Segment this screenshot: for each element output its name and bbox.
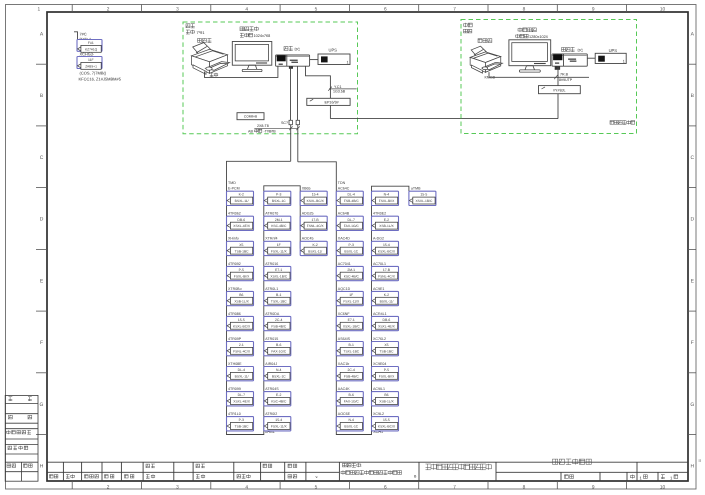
svg-text:1G3.5B: 1G3.5B	[333, 89, 345, 94]
svg-text:ADG25: ADG25	[302, 211, 314, 216]
svg-text:(COS, 7)7MB(): (COS, 7)7MB()	[80, 71, 107, 76]
svg-text:D: D	[40, 217, 44, 223]
left room green dashed boundary	[183, 22, 358, 134]
unit box XHinfo	[227, 241, 254, 255]
svg-text:E: E	[40, 278, 44, 284]
unit box ATR0I2	[264, 417, 291, 431]
svg-text:AB: AB	[248, 129, 253, 134]
svg-text:FSXL-11/X: FSXL-11/X	[343, 300, 359, 304]
svg-text:K-2: K-2	[312, 243, 317, 247]
svg-text:X5: X5	[384, 344, 388, 348]
svg-text:7: 7	[453, 484, 456, 490]
svg-text:Y.C1: Y.C1	[334, 85, 342, 90]
svg-text:4TR1L0: 4TR1L0	[228, 412, 241, 417]
title block small labels row	[50, 475, 58, 478]
unit box XTRnf4	[264, 241, 291, 255]
right host label	[562, 47, 575, 51]
svg-text:F#1: F#1	[88, 42, 94, 46]
svg-text:AC64B: AC64B	[338, 211, 349, 216]
svg-text:4TR099: 4TR099	[228, 387, 241, 392]
right printer label	[478, 39, 492, 43]
right room corner label	[610, 120, 635, 124]
unit box AC9IL1	[372, 392, 399, 406]
title block project-name cell	[343, 463, 361, 467]
bottom zone tick marks	[72, 481, 626, 489]
wire hub left down to LAN link	[329, 105, 331, 118]
svg-text:4: 4	[245, 6, 248, 12]
svg-text:AAC4K: AAC4K	[338, 387, 350, 392]
svg-text:15-5: 15-5	[383, 419, 390, 423]
unit box aTMB	[409, 191, 436, 205]
svg-text:7: 7	[453, 6, 456, 12]
svg-text:N-4: N-4	[276, 369, 282, 373]
svg-text:II: II	[699, 459, 701, 464]
svg-text:8: 8	[523, 484, 526, 490]
svg-text:A: A	[691, 32, 695, 38]
margin table label: miao tu	[9, 397, 13, 401]
svg-text:P-3: P-3	[276, 193, 281, 197]
svg-text:XTH08E: XTH08E	[228, 361, 242, 366]
unit box AC9E1	[372, 291, 399, 305]
svg-text:AC70L1: AC70L1	[373, 261, 386, 266]
svg-text:B-6: B-6	[349, 394, 354, 398]
svg-text:XB65: XB65	[302, 186, 311, 191]
svg-text:FSB-4B/C: FSB-4B/C	[344, 375, 359, 379]
svg-text:K-2: K-2	[239, 193, 244, 197]
svg-text:4TR09P: 4TR09P	[228, 336, 241, 341]
svg-text:XAC4D: XAC4D	[338, 236, 350, 241]
left riser wire A upper	[290, 66, 292, 120]
svg-text:B-1: B-1	[276, 293, 281, 297]
svg-text:TSB-1BC: TSB-1BC	[235, 425, 249, 429]
svg-text:B: B	[40, 93, 44, 99]
svg-text:C: C	[40, 155, 44, 161]
svg-text:XC9E04: XC9E04	[373, 361, 386, 366]
printer right	[470, 46, 502, 73]
unit box TDN/AC64C	[336, 191, 363, 205]
bus serpentine right net	[298, 162, 409, 435]
unit box ATR070	[264, 216, 291, 230]
svg-text:DB-6: DB-6	[383, 318, 391, 322]
svg-text:UPS: UPS	[329, 48, 338, 53]
unit box ADG25	[300, 216, 327, 230]
svg-text:BSXL-1C: BSXL-1C	[344, 425, 358, 429]
svg-text:AS64IS: AS64IS	[338, 336, 350, 341]
svg-text:7R.B: 7R.B	[560, 72, 568, 77]
left riser wire A lower	[290, 125, 292, 162]
serial server box left	[237, 113, 264, 120]
svg-text:XTR0Bo: XTR0Bo	[228, 286, 242, 291]
wire printer to host left	[205, 66, 278, 77]
svg-text:7#C: 7#C	[80, 32, 87, 37]
monitor right	[509, 40, 551, 66]
svg-text:1F: 1F	[349, 293, 353, 297]
svg-text:15-5: 15-5	[420, 193, 427, 197]
svg-text:17-B: 17-B	[312, 218, 319, 222]
svg-text:AC7041: AC7041	[338, 261, 351, 266]
right zone tick marks	[688, 64, 696, 434]
svg-text:XC9L2: XC9L2	[373, 412, 384, 417]
svg-text:5: 5	[315, 6, 318, 12]
wire host bottom-right to hub left	[306, 66, 331, 98]
unit box c2r1	[264, 191, 291, 205]
title block sheet cell: di 1 zhang	[631, 475, 635, 479]
svg-text:15-4: 15-4	[383, 243, 390, 247]
svg-text:AQC1D: AQC1D	[338, 286, 350, 291]
svg-text:FSXL-BI/X: FSXL-BI/X	[379, 375, 395, 379]
svg-text:C: C	[690, 155, 694, 161]
svg-text:15-4: 15-4	[275, 419, 282, 423]
title block sheet cell: gong 1 zhang	[661, 475, 665, 479]
left host label	[284, 46, 293, 50]
svg-text:F: F	[40, 340, 43, 346]
svg-text:KSXL-BC/X: KSXL-BC/X	[233, 325, 251, 329]
unit box TMD/E-PCM	[227, 191, 254, 205]
svg-text:XSXL-1B/C: XSXL-1B/C	[343, 325, 360, 329]
svg-text:6: 6	[384, 484, 387, 490]
svg-text:1: 1	[623, 59, 625, 64]
svg-text:1F: 1F	[277, 243, 281, 247]
svg-text:FSXL-11/X: FSXL-11/X	[271, 250, 287, 254]
svg-text:KFCC16, Z1#J5MBM#5: KFCC16, Z1#J5MBM#5	[79, 77, 122, 82]
svg-text:XSXL-4E/X: XSXL-4E/X	[233, 225, 250, 229]
left printer label	[198, 38, 212, 42]
svg-text:10: 10	[660, 6, 665, 12]
svg-text:X5: X5	[239, 243, 243, 247]
svg-text:11F: 11F	[88, 59, 94, 63]
svg-text:ATR015: ATR015	[265, 336, 278, 341]
svg-text:FSNL-4C/X: FSNL-4C/X	[307, 225, 324, 229]
margin table label: miao jiao	[9, 415, 13, 419]
svg-text:DL-4: DL-4	[238, 369, 245, 373]
svg-text:FSNL-4C/X: FSNL-4C/X	[378, 275, 395, 279]
svg-text:B: B	[414, 474, 417, 479]
svg-text:XSB-1L/X: XSB-1L/X	[379, 225, 394, 229]
svg-text:AC64C: AC64C	[338, 186, 350, 191]
svg-text:4TR0E2: 4TR0E2	[373, 211, 386, 216]
svg-text:1: 1	[347, 60, 349, 64]
svg-text:ATR0L1: ATR0L1	[265, 286, 278, 291]
svg-text:10: 10	[660, 484, 665, 490]
svg-text:UPS: UPS	[609, 49, 618, 54]
svg-text:BSXL-1C: BSXL-1C	[344, 250, 358, 254]
svg-text:1280x1024: 1280x1024	[529, 35, 548, 40]
unit box AS64IS	[336, 342, 363, 356]
left room label line 2	[186, 30, 194, 34]
unit box ATR015	[264, 342, 291, 356]
svg-text:4: 4	[245, 484, 248, 490]
UPS right	[595, 53, 626, 63]
unit box 4TR1L0	[227, 417, 254, 431]
unit box XAC4D	[336, 241, 363, 255]
svg-text:2C-4: 2C-4	[348, 369, 355, 373]
svg-text:-T#B#B: -T#B#B	[264, 129, 276, 134]
svg-text:H: H	[690, 464, 694, 470]
unit box XTH08E	[227, 367, 254, 381]
svg-text:3: 3	[176, 484, 179, 490]
printer left	[192, 43, 230, 75]
unit box XC9L2	[372, 417, 399, 431]
right host lower connector	[555, 66, 560, 70]
svg-text:E-2: E-2	[276, 394, 281, 398]
svg-text:#Y#8JL: #Y#8JL	[553, 88, 566, 93]
svg-text:ATR016: ATR016	[265, 261, 278, 266]
svg-text:EP16/9#: EP16/9#	[325, 100, 340, 105]
unit box AC70L1	[372, 266, 399, 280]
svg-text:BSXL-11/: BSXL-11/	[380, 300, 394, 304]
svg-text:ACR4L1: ACR4L1	[373, 311, 387, 316]
left host lower connector	[289, 66, 293, 69]
UPS left	[318, 54, 350, 65]
svg-text:2M-1: 2M-1	[347, 268, 355, 272]
left riser wire B lower	[297, 125, 299, 162]
svg-text:1024x768: 1024x768	[254, 34, 271, 39]
unit box XAC1b	[336, 367, 363, 381]
svg-text:AC9E1: AC9E1	[373, 286, 384, 291]
svg-text:P-5: P-5	[384, 369, 389, 373]
svg-text:DL-7: DL-7	[348, 218, 355, 222]
svg-text:2C-4: 2C-4	[275, 318, 282, 322]
svg-text:KSC-4B/C: KSC-4B/C	[271, 400, 286, 404]
svg-text:P-5: P-5	[239, 268, 244, 272]
svg-text:H: H	[40, 464, 44, 470]
unit box 4TR0E2	[372, 216, 399, 230]
svg-text:ATR070: ATR070	[265, 211, 278, 216]
svg-text:1: 1	[670, 476, 673, 481]
svg-text:E7-1: E7-1	[275, 268, 282, 272]
svg-text:FSXL-11/X: FSXL-11/X	[271, 425, 287, 429]
svg-text:9: 9	[592, 6, 595, 12]
cable tag on right host riser	[554, 75, 558, 79]
svg-text:2: 2	[107, 6, 110, 12]
svg-text:F: F	[691, 340, 694, 346]
svg-text:BSXL-11/: BSXL-11/	[308, 250, 322, 254]
svg-text:FSB-4B/C: FSB-4B/C	[271, 325, 286, 329]
legend reference tick	[74, 32, 78, 50]
svg-text:B-6: B-6	[276, 344, 281, 348]
title block grid	[47, 462, 688, 481]
top zone tick marks	[72, 5, 626, 13]
svg-text:BSXL-11/: BSXL-11/	[235, 200, 249, 204]
svg-text::: :	[361, 463, 362, 468]
svg-text:2X8-T8: 2X8-T8	[257, 124, 269, 129]
cable tag on risers	[254, 127, 297, 129]
svg-text:E-PCM: E-PCM	[228, 186, 240, 191]
terminal block on riser B	[296, 120, 299, 124]
unit box 4TR092	[227, 266, 254, 280]
svg-text:4TR092: 4TR092	[228, 261, 241, 266]
svg-text:SC?: SC?	[281, 121, 288, 126]
left monitor label line 2	[240, 33, 253, 37]
unit box XC76L2	[372, 342, 399, 356]
svg-text:B: B	[691, 93, 695, 99]
svg-text:A: A	[40, 32, 44, 38]
svg-text:G: G	[690, 402, 694, 408]
svg-text:XSB-1L/X: XSB-1L/X	[379, 400, 394, 404]
wire host-UPS left	[310, 59, 318, 61]
svg-text:8: 8	[523, 6, 526, 12]
svg-text:BSXL-1C: BSXL-1C	[272, 375, 286, 379]
svg-text:TSB-1BC: TSB-1BC	[380, 350, 394, 354]
unit box AC7041	[336, 266, 363, 280]
unit box AAC4K	[336, 392, 363, 406]
left room label line 1	[186, 24, 195, 28]
unit box ATR0DA	[264, 316, 291, 330]
svg-text:TMD: TMD	[228, 181, 236, 186]
svg-text:9: 9	[592, 484, 595, 490]
svg-text:ATR04S: ATR04S	[265, 387, 278, 392]
svg-text:1: 1	[37, 6, 40, 12]
svg-text:Z#B9+1: Z#B9+1	[85, 65, 97, 69]
svg-text:KSXL-BC/X: KSXL-BC/X	[378, 425, 396, 429]
svg-text:DL-7: DL-7	[238, 394, 245, 398]
svg-text:K-2: K-2	[384, 293, 389, 297]
margin table label: ri qi / qian zi	[7, 464, 16, 468]
svg-text:5: 5	[315, 484, 318, 490]
unit box AOC6E	[336, 417, 363, 431]
svg-text:TSXL-1BC: TSXL-1BC	[271, 300, 287, 304]
cable tag YC1 on left hub riser	[329, 88, 357, 90]
legend example unit box 1	[77, 40, 102, 52]
svg-text:P-3: P-3	[239, 419, 244, 423]
right room label line 1	[464, 23, 473, 27]
svg-text:KSC-4B/C: KSC-4B/C	[271, 225, 286, 229]
svg-text:TSB-1BC: TSB-1BC	[235, 250, 249, 254]
svg-text:4TR086: 4TR086	[228, 311, 241, 316]
svg-text:3: 3	[176, 6, 179, 12]
left monitor label line 1	[240, 27, 258, 31]
svg-text:AOC6E: AOC6E	[338, 412, 350, 417]
svg-text:N-4: N-4	[384, 193, 390, 197]
svg-text:AC9IL1: AC9IL1	[373, 387, 385, 392]
unit box AC64B	[336, 216, 363, 230]
svg-text:aTMB: aTMB	[411, 186, 421, 191]
terminal block on riser A	[289, 120, 292, 124]
svg-text:FSXL-BI/X: FSXL-BI/X	[379, 200, 395, 204]
title block scale cell: bi li	[565, 475, 574, 479]
svg-text:ATR0DA: ATR0DA	[265, 311, 279, 316]
svg-text:XSXL-4E/X: XSXL-4E/X	[378, 325, 395, 329]
svg-text:A-DG2: A-DG2	[373, 236, 384, 241]
svg-text:FSXL-BI/X: FSXL-BI/X	[234, 275, 250, 279]
host computer left	[276, 55, 310, 66]
svg-text:FSB-4B/C: FSB-4B/C	[344, 200, 359, 204]
svg-text:TDN: TDN	[338, 181, 345, 186]
hub box right	[539, 86, 581, 94]
title block company name	[426, 464, 492, 470]
svg-text:XCHG3-: XCHG3-	[80, 52, 95, 57]
host computer right	[552, 54, 587, 66]
svg-text:XAC1b: XAC1b	[338, 361, 349, 366]
svg-text:B6: B6	[384, 394, 388, 398]
wire printer to host right	[489, 72, 589, 77]
svg-text:BSXL-1C: BSXL-1C	[272, 200, 286, 204]
hub box left	[307, 98, 350, 105]
unit box 4TR062	[227, 216, 254, 230]
right room label line 2	[464, 29, 472, 33]
svg-text:ATR0I2: ATR0I2	[265, 412, 277, 417]
svg-text:KZ7#1Q: KZ7#1Q	[85, 48, 97, 52]
svg-text:E7-1: E7-1	[348, 318, 355, 322]
svg-text:8#9UTP: 8#9UTP	[559, 78, 572, 83]
unit box XTR0Bo	[227, 291, 254, 305]
unit box 4TR086	[227, 316, 254, 330]
unit box AQC1D	[336, 291, 363, 305]
svg-text:FAX-1G/C: FAX-1G/C	[344, 225, 359, 229]
svg-text:DC: DC	[295, 47, 301, 52]
svg-text:DL-4: DL-4	[348, 193, 355, 197]
svg-text:KSXL-BC/X: KSXL-BC/X	[307, 200, 325, 204]
svg-text:KSC-4B/C: KSC-4B/C	[344, 275, 359, 279]
left printer USB label	[210, 73, 218, 77]
unit box 4TR099	[227, 392, 254, 406]
svg-text:FSNL-4C/X: FSNL-4C/X	[233, 350, 250, 354]
svg-text:B6: B6	[239, 293, 243, 297]
legend example unit box 2	[77, 57, 102, 69]
margin table label: jiu di tu zong hao	[7, 430, 31, 434]
unit box ATR016	[264, 266, 291, 280]
unit box AOC45	[300, 241, 327, 255]
svg-text:2-1: 2-1	[239, 344, 244, 348]
svg-text:KSXL-BC/X: KSXL-BC/X	[378, 250, 396, 254]
svg-text:XC6NF: XC6NF	[338, 311, 350, 316]
svg-text:N-4: N-4	[348, 419, 354, 423]
svg-text:E: E	[691, 278, 695, 284]
title block drawing title	[553, 459, 592, 465]
left riser wire B upper	[297, 66, 299, 120]
svg-text:D: D	[690, 217, 694, 223]
svg-text:XSB-1L/X: XSB-1L/X	[234, 300, 249, 304]
svg-text:DB-6: DB-6	[237, 218, 245, 222]
svg-text:XC76L2: XC76L2	[373, 336, 386, 341]
svg-text:E-2: E-2	[384, 218, 389, 222]
wire host-UPS right	[587, 57, 595, 59]
unit box XB65	[300, 191, 327, 205]
svg-text:COM8#B: COM8#B	[244, 115, 257, 119]
unit box ATR0L1	[264, 291, 291, 305]
svg-text:6: 6	[384, 6, 387, 12]
svg-text:B-1: B-1	[349, 344, 354, 348]
svg-text:TSXL-1BC: TSXL-1BC	[343, 350, 359, 354]
svg-text:XHinfo: XHinfo	[228, 236, 239, 241]
unit box c5r1	[372, 191, 399, 205]
right room green dashed boundary	[461, 20, 637, 134]
LAN link riser to right hub	[557, 94, 559, 119]
svg-text:15-4: 15-4	[312, 193, 319, 197]
svg-text:BSXL-11/: BSXL-11/	[235, 375, 249, 379]
unit box A-DG2	[372, 241, 399, 255]
unit box XC6NF	[336, 316, 363, 330]
svg-text:FAX-1G/C: FAX-1G/C	[344, 400, 359, 404]
LAN link wire between rooms	[330, 118, 558, 120]
unit box 4TR09P	[227, 342, 254, 356]
bus serpentine left net	[227, 161, 301, 434]
right monitor label line 2	[516, 34, 529, 38]
svg-text:AOC45: AOC45	[302, 236, 314, 241]
unit box XC9E04	[372, 367, 399, 381]
svg-text:FAX-1G/C: FAX-1G/C	[271, 350, 286, 354]
unit box ACR4L1	[372, 316, 399, 330]
wire right host down to hub	[557, 66, 559, 85]
svg-text:15-5: 15-5	[238, 318, 245, 322]
unit box ATR04S	[264, 392, 291, 406]
margin signature table grid	[5, 395, 38, 481]
svg-text:v.: v.	[316, 475, 319, 480]
svg-text:2: 2	[107, 484, 110, 490]
svg-text:DC: DC	[578, 48, 584, 53]
svg-text:1: 1	[640, 476, 643, 481]
svg-text:7*91: 7*91	[197, 30, 205, 35]
